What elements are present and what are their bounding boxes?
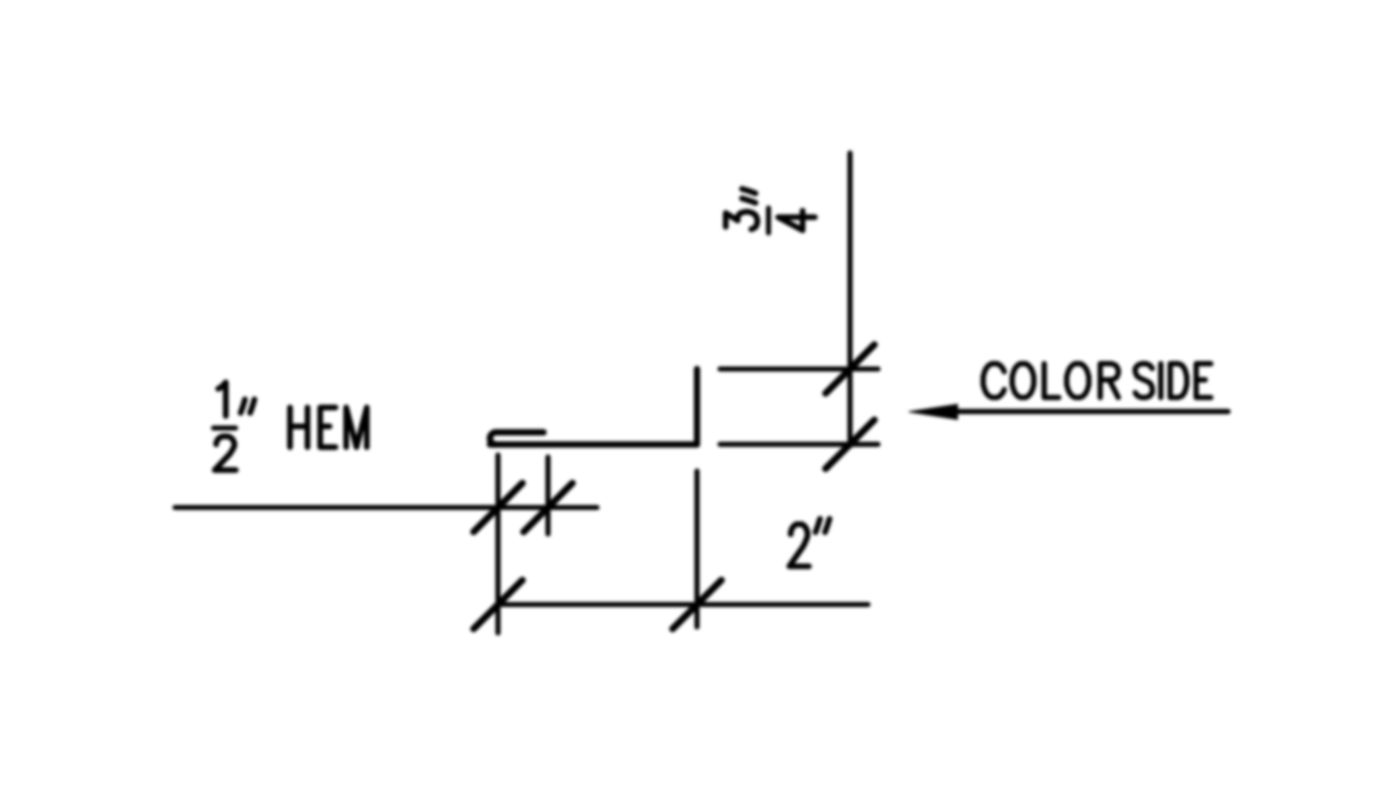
label COLOR SIDE letter E	[1196, 364, 1211, 398]
label COLOR SIDE letter R	[1100, 364, 1118, 398]
tick mark at hem right	[524, 483, 573, 532]
fraction bar of 3/4 (rotated)	[766, 208, 771, 233]
arrowhead pointing left	[909, 404, 958, 419]
label COLOR SIDE letter O	[1012, 364, 1034, 398]
inch mark after 2	[816, 519, 830, 532]
extension line at hem inner edge x=548	[545, 457, 550, 534]
dimension text 2	[789, 524, 809, 566]
hemmed edge (1/2 inch hem fold)	[490, 432, 544, 444]
fraction bar of 1/2	[214, 426, 236, 431]
label COLOR SIDE letter C	[983, 364, 1004, 398]
fraction numerator 3 (rotated)	[726, 212, 758, 230]
vertical dimension line for 3/4 inch	[847, 153, 852, 446]
label HEM letter E	[320, 408, 335, 448]
label COLOR SIDE letter L	[1044, 364, 1059, 398]
leader line of COLOR SIDE arrow	[955, 409, 1228, 414]
dimension leader line for 1/2 inch hem	[175, 505, 597, 510]
label HEM letter H	[290, 408, 308, 448]
dimension line for 2 inch	[498, 602, 868, 607]
label COLOR SIDE letter O	[1067, 364, 1089, 398]
tick mark 3/4 lower	[826, 420, 875, 469]
label HEM letter M	[346, 408, 367, 448]
bottom flange (2 inch horizontal leg)	[490, 441, 697, 447]
tick mark 2 inch left	[474, 580, 523, 629]
tick mark 2 inch right	[673, 580, 722, 629]
extension line below vertical leg x=697	[694, 471, 699, 627]
upper extension line y=369	[720, 366, 878, 371]
label COLOR SIDE letter D	[1170, 364, 1187, 398]
vertical leg (3/4 inch up-turn)	[694, 369, 700, 445]
fraction denominator 2	[215, 436, 236, 470]
inch mark after 1/2	[241, 399, 255, 413]
tick mark at hem left	[474, 483, 523, 532]
inch mark after 3/4 (rotated)	[742, 189, 756, 203]
lower extension line y=444	[720, 442, 878, 447]
tick mark 3/4 upper	[826, 345, 875, 394]
fraction denominator 4 (rotated)	[778, 211, 815, 231]
label COLOR SIDE letter I	[1158, 364, 1163, 398]
extension line at hem outer edge x=498	[495, 455, 500, 633]
label COLOR SIDE letter S	[1135, 364, 1152, 398]
fraction numerator 1	[218, 382, 226, 416]
